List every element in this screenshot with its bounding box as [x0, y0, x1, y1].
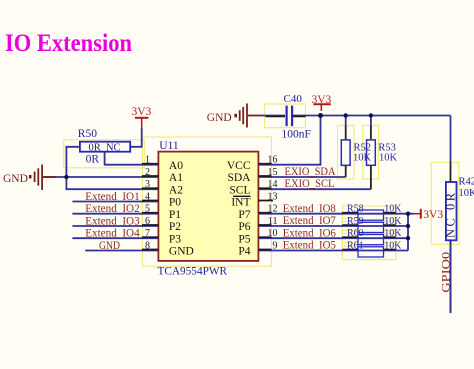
resistor R53 body [367, 140, 376, 165]
wire VCC pin16 drop [258, 116, 320, 165]
svg-text:8: 8 [145, 241, 150, 252]
svg-text:Extend_IO8: Extend_IO8 [283, 203, 336, 215]
svg-text:GND: GND [99, 240, 120, 252]
svg-text:Extend_IO5: Extend_IO5 [283, 240, 336, 252]
wire Extend_IO2 row [72, 213, 158, 215]
highlight box R58 [342, 206, 396, 222]
svg-text:R61: R61 [347, 240, 364, 251]
svg-text:3V3: 3V3 [423, 209, 443, 221]
svg-text:16: 16 [268, 155, 278, 166]
highlight box U11 [142, 137, 271, 266]
wire R53 top lead from rail [370, 116, 372, 127]
svg-text:12: 12 [268, 204, 278, 215]
svg-text:10K: 10K [384, 204, 402, 215]
junction dot collector IO7 [406, 224, 410, 228]
highlight box R60 [342, 231, 396, 247]
svg-text:11: 11 [268, 216, 278, 227]
svg-text:P7: P7 [238, 209, 250, 221]
power GND top symbol [236, 104, 261, 128]
svg-text:EXIO_SCL: EXIO_SCL [285, 178, 335, 190]
resistor R52 body [341, 140, 350, 165]
svg-text:P1: P1 [169, 209, 181, 221]
svg-text:C40: C40 [284, 93, 303, 105]
highlight box C40 [265, 104, 306, 128]
svg-text:A2: A2 [169, 184, 183, 196]
resistor R50 body with 0R_NC [80, 142, 130, 152]
R60 pin stubs [342, 236, 396, 238]
svg-text:3V3: 3V3 [312, 94, 332, 106]
svg-text:3V3: 3V3 [132, 106, 152, 118]
svg-text:10K: 10K [384, 228, 402, 239]
capacitor C40 plates [287, 106, 293, 127]
junction dot GND left [64, 175, 68, 179]
svg-text:9: 9 [273, 241, 278, 252]
highlight box R52 [338, 125, 355, 179]
svg-text:SDA: SDA [227, 172, 251, 184]
svg-text:10K: 10K [353, 153, 372, 164]
U11 left pin stubs 1-8 [142, 164, 158, 250]
svg-text:10: 10 [268, 228, 278, 239]
svg-text:1: 1 [145, 155, 150, 166]
svg-text:GND: GND [207, 112, 232, 124]
svg-text:13: 13 [268, 192, 278, 203]
svg-text:2: 2 [145, 167, 150, 178]
svg-text:Extend_IO7: Extend_IO7 [283, 215, 336, 227]
wire pull-up collector vertical [407, 214, 409, 251]
svg-text:Extend_IO1: Extend_IO1 [85, 191, 140, 203]
wire R52 top lead from rail [345, 116, 347, 127]
svg-text:TCA9554PWR: TCA9554PWR [158, 264, 228, 278]
wire R50 left lead down to GND junction [66, 147, 80, 177]
R59 pin stubs [342, 224, 396, 226]
resistor R60 body [358, 235, 384, 245]
svg-text:A1: A1 [169, 172, 183, 184]
wire R52 bottom lead [345, 165, 347, 177]
svg-text:R60: R60 [347, 228, 364, 239]
wire GND left to junction and pin2 A1 [43, 176, 158, 178]
svg-text:VCC: VCC [227, 160, 251, 172]
wire junction down to row3 and pin3 A2 [66, 177, 158, 189]
junction dot R53 rail [369, 113, 373, 117]
svg-text:10K: 10K [384, 216, 402, 227]
svg-text:10K: 10K [459, 188, 474, 199]
power 3V3 right symbol [414, 209, 421, 219]
U11 right pin stubs 16-9 [258, 164, 273, 250]
svg-text:Extend_IO3: Extend_IO3 [85, 215, 140, 227]
highlight box R50 [64, 140, 145, 168]
highlight box R53 [363, 125, 379, 179]
svg-text:100nF: 100nF [282, 128, 311, 140]
svg-text:0R: 0R [86, 154, 100, 166]
wire GND row8 [85, 250, 158, 252]
highlight box R61 [342, 243, 396, 260]
power 3V3 top-left symbol [135, 118, 149, 129]
wire Extend_IO8 row pin12 [258, 213, 408, 215]
wire R42 top black lead [450, 163, 452, 183]
svg-text:4: 4 [145, 192, 150, 203]
svg-text:U11: U11 [159, 140, 179, 152]
svg-text:R50: R50 [78, 128, 97, 140]
highlight box R59 [342, 218, 396, 234]
svg-text:P2: P2 [169, 221, 181, 233]
svg-text:IO Extension: IO Extension [5, 30, 132, 57]
resistor R59 body [358, 222, 384, 232]
wire Extend_IO5 row pin9 [258, 250, 408, 252]
svg-text:R59: R59 [347, 216, 364, 227]
wire GPIO0 stub [450, 245, 452, 314]
svg-text:R52: R52 [354, 142, 372, 153]
wire Extend_IO1 row [72, 201, 158, 203]
svg-text:P5: P5 [238, 233, 250, 245]
R53 top pin black [370, 126, 372, 139]
svg-text:5: 5 [145, 204, 150, 215]
svg-text:3: 3 [145, 179, 150, 190]
C40 pin stubs [266, 115, 306, 117]
wire EXIO_SCL pin14 to R53 [258, 188, 371, 190]
svg-text:15: 15 [268, 167, 278, 178]
wire R50 right lead up to 3V3 [130, 128, 142, 147]
svg-text:14: 14 [268, 179, 278, 190]
R52 top pin black [345, 126, 347, 140]
R58 pin stubs [342, 212, 396, 214]
resistor R61 body [358, 247, 384, 257]
wire 0R alternate link to pin1 A0 [105, 152, 159, 165]
svg-text:GND: GND [169, 246, 194, 258]
wire Extend_IO4 row [72, 237, 158, 239]
wire collector to 3V3 right [408, 213, 414, 215]
svg-text:6: 6 [145, 216, 150, 227]
resistor R42 body [446, 182, 457, 240]
R61 pin stubs [342, 249, 396, 251]
svg-text:NC 0R: NC 0R [444, 190, 458, 238]
INT overline [233, 195, 251, 197]
svg-text:0R_NC: 0R_NC [89, 143, 121, 154]
svg-text:Extend_IO2: Extend_IO2 [85, 203, 140, 215]
wire GND top to C40 [261, 115, 285, 117]
svg-text:R42: R42 [459, 176, 474, 187]
svg-text:R53: R53 [378, 142, 396, 153]
wire Extend_IO3 row [72, 225, 158, 227]
svg-text:R58: R58 [347, 204, 364, 215]
wire Extend_IO7 row pin11 [258, 225, 408, 227]
junction dot collector IO8 [406, 212, 410, 216]
svg-text:A0: A0 [169, 160, 183, 172]
junction dot collector IO6 [406, 236, 410, 240]
svg-text:P3: P3 [169, 233, 181, 245]
power GND left symbol [30, 165, 56, 190]
svg-text:7: 7 [145, 228, 150, 239]
power 3V3 top-mid symbol [313, 104, 330, 111]
svg-text:P6: P6 [238, 221, 250, 233]
svg-text:10K: 10K [379, 153, 398, 164]
svg-text:P0: P0 [169, 197, 181, 209]
svg-text:SCL: SCL [229, 184, 250, 196]
highlight box R42 [431, 162, 459, 244]
wire EXIO_SDA pin15 to R52 [258, 176, 345, 178]
wire R42 bottom black lead [450, 240, 452, 244]
resistor R58 body [358, 210, 384, 220]
svg-text:10K: 10K [384, 240, 402, 251]
svg-text:EXIO_SDA: EXIO_SDA [285, 166, 337, 178]
svg-text:GND: GND [3, 173, 28, 185]
wire Extend_IO6 row pin10 [258, 237, 408, 239]
junction dot R52 rail [344, 113, 348, 117]
svg-text:Extend_IO4: Extend_IO4 [85, 228, 140, 240]
IC U11 body [158, 152, 258, 261]
svg-text:GPIO0: GPIO0 [440, 251, 452, 292]
wire R53 bottom lead [370, 165, 372, 189]
wire 3V3 rail [293, 115, 451, 117]
junction dot 3V3 rail [318, 113, 323, 118]
wire rail corner down to R42 [450, 116, 452, 163]
svg-text:INT: INT [231, 197, 250, 209]
svg-text:P4: P4 [238, 246, 250, 258]
svg-text:Extend_IO6: Extend_IO6 [283, 227, 336, 239]
